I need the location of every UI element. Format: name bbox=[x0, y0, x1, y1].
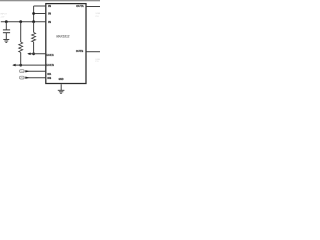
svg-text:ONA: ONA bbox=[20, 70, 25, 73]
svg-text:IN: IN bbox=[48, 4, 51, 8]
svg-text:FAULTB: FAULTB bbox=[47, 63, 54, 67]
svg-text:ONB: ONB bbox=[47, 76, 51, 80]
svg-text:IN: IN bbox=[48, 12, 51, 16]
svg-text:PO: PO bbox=[96, 16, 99, 18]
svg-text:OUTA: OUTA bbox=[76, 4, 83, 8]
svg-text:FAULTA: FAULTA bbox=[47, 53, 55, 57]
svg-text:INPUT: INPUT bbox=[0, 14, 7, 16]
svg-text:+5V: +5V bbox=[0, 16, 4, 18]
svg-text:IN: IN bbox=[48, 20, 51, 24]
svg-text:MAX1812: MAX1812 bbox=[56, 33, 70, 38]
svg-text:OUTB: OUTB bbox=[76, 49, 83, 53]
svg-text:ONB: ONB bbox=[20, 78, 25, 80]
svg-text:USB: USB bbox=[96, 13, 100, 15]
svg-text:GND: GND bbox=[59, 77, 64, 81]
svg-text:PO: PO bbox=[95, 61, 98, 63]
